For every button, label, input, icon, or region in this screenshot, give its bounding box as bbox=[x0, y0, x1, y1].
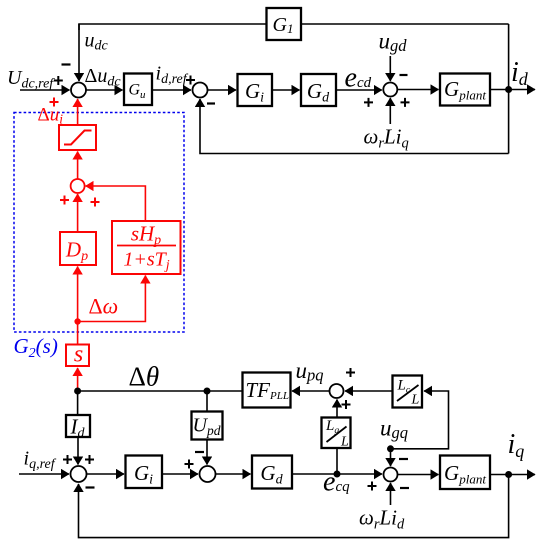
block Gu bbox=[124, 74, 152, 106]
node i_d bbox=[505, 86, 512, 93]
minus below right of S7 bbox=[400, 487, 409, 489]
wire fraction to Sred bbox=[86, 186, 146, 221]
svg-text:G2(s): G2(s) bbox=[14, 334, 58, 361]
block G1 bbox=[267, 8, 302, 40]
node u_gq bbox=[387, 445, 394, 452]
block Gplant row1 bbox=[440, 74, 490, 106]
summing junction S7 bbox=[384, 468, 398, 482]
input u_gd arrow down bbox=[389, 56, 391, 81]
block Lc/L bbox=[393, 376, 423, 408]
wire Delta-theta node down to Id bbox=[77, 391, 79, 415]
block Gd row1 bbox=[301, 74, 336, 106]
minus below right of S3 bbox=[86, 486, 95, 488]
wire node to fraction bbox=[78, 276, 146, 322]
wire Delta theta horizontal bbox=[78, 390, 243, 392]
wire top feedback horizontal right of G1 bbox=[301, 23, 509, 25]
wire S1 to Gu bbox=[86, 89, 123, 91]
wire s block to node bbox=[77, 322, 79, 345]
wire bottom q-loop bbox=[79, 475, 509, 538]
blue dashed box G2(s) bbox=[14, 113, 184, 333]
wire Gd to S5 bbox=[336, 89, 382, 91]
block Gd row2 bbox=[252, 456, 292, 489]
saturation block red bbox=[59, 125, 96, 150]
wire top feedback horizontal left of G1 bbox=[79, 24, 267, 30]
minus at S5 top bbox=[400, 74, 408, 76]
wire Gplant to output i_d bbox=[490, 89, 535, 91]
wire Lg/L to S6 bbox=[336, 400, 338, 418]
wire S3 to Gi2 bbox=[87, 473, 125, 475]
svg-text:Δθ: Δθ bbox=[129, 362, 160, 392]
block Gi row2 bbox=[126, 456, 163, 489]
plus above-right of S6 bbox=[346, 368, 355, 377]
wire Upd to S4 bbox=[206, 440, 208, 465]
wire Delta-theta node to s block bbox=[77, 368, 79, 391]
wire node to Dp bbox=[77, 267, 79, 322]
svg-text:1+sTj: 1+sTj bbox=[123, 249, 169, 274]
wire Gu to S2 bbox=[152, 89, 191, 91]
input omega_r L i_d arrow up bbox=[390, 483, 392, 505]
wire S6 to TF_PLL bbox=[292, 390, 330, 392]
plus below-right of S6 bbox=[342, 400, 351, 409]
wire Dp to Sred bbox=[77, 194, 79, 232]
wire u_gq node down to S7 bbox=[390, 449, 392, 466]
block s red bbox=[66, 345, 89, 367]
svg-text:L: L bbox=[340, 435, 349, 450]
svg-text:L: L bbox=[411, 393, 420, 408]
wire S5 to Gplant bbox=[397, 89, 438, 91]
red plus at S1 bottom bbox=[50, 98, 59, 107]
node i_q bbox=[505, 471, 512, 478]
node on Delta theta above Upd bbox=[204, 388, 211, 395]
plus at S5 right bbox=[401, 98, 410, 107]
wire S7 to Gplant2 bbox=[398, 474, 439, 476]
wire S4 to Gd2 bbox=[216, 473, 251, 475]
wire Gi2 to S4 bbox=[162, 473, 198, 475]
plus left of S4 bbox=[185, 460, 194, 469]
minus left of Upd arrow bbox=[195, 451, 204, 453]
summing junction S6 bbox=[330, 384, 344, 398]
wire Gplant2 to output i_q bbox=[490, 474, 535, 476]
block TF_PLL bbox=[243, 373, 291, 408]
wire S2 to Gi bbox=[208, 89, 237, 91]
block sHp/(1+sTj) red bbox=[112, 221, 181, 274]
wire u_gq to Lc/L bbox=[391, 391, 449, 449]
plus left of S7 bbox=[368, 482, 377, 491]
plus right above S3 bbox=[85, 455, 94, 464]
plus at S5 left bbox=[364, 98, 373, 107]
minus right of u_gq arrow bbox=[399, 458, 408, 460]
minus at S2 bbox=[207, 102, 215, 104]
wire Sred to saturation bbox=[77, 152, 79, 180]
block Id bbox=[66, 415, 90, 437]
wire Id to S3 bbox=[77, 437, 79, 465]
svg-text:s: s bbox=[74, 342, 83, 368]
wire e_cq node to Lg/L bbox=[336, 448, 338, 474]
input omega_r L i_q arrow up bbox=[389, 98, 391, 124]
block Dp red bbox=[60, 232, 96, 265]
plus right of Sred bbox=[91, 198, 100, 207]
summing junction S1 bbox=[71, 83, 86, 98]
wire Gi to Gd bbox=[272, 89, 300, 91]
node e_cq bbox=[334, 471, 341, 478]
wire node to Upd bbox=[206, 391, 208, 412]
summing junction S2 bbox=[193, 83, 208, 98]
block Gplant row2 bbox=[440, 456, 490, 490]
wire Gd2 to S7 bbox=[292, 473, 382, 475]
wire right vertical i_d feedback bbox=[508, 24, 510, 154]
minus at S1 top bbox=[62, 63, 71, 65]
node on Delta theta at left column bbox=[74, 388, 81, 395]
summing junction Sred bbox=[71, 179, 85, 193]
block Gi row1 bbox=[238, 74, 273, 106]
wire saturation to S1 red bbox=[77, 99, 79, 125]
plus left of Sred bbox=[60, 196, 69, 205]
summing junction S3 bbox=[71, 466, 87, 482]
wire input U_dc,ref bbox=[20, 89, 70, 91]
svg-text:Δω: Δω bbox=[89, 294, 119, 319]
wire Lc/L to S6 bbox=[345, 390, 393, 392]
wire u_dc feedback vertical into S1 bbox=[78, 24, 80, 81]
summing junction S5 bbox=[383, 83, 397, 97]
wire bottom d-loop bbox=[200, 99, 509, 154]
block Lg/L bbox=[322, 418, 351, 449]
block Upd bbox=[192, 412, 223, 440]
summing junction S4 bbox=[200, 466, 216, 482]
node Delta omega bbox=[74, 318, 80, 324]
wire input i_q,ref bbox=[19, 473, 69, 475]
